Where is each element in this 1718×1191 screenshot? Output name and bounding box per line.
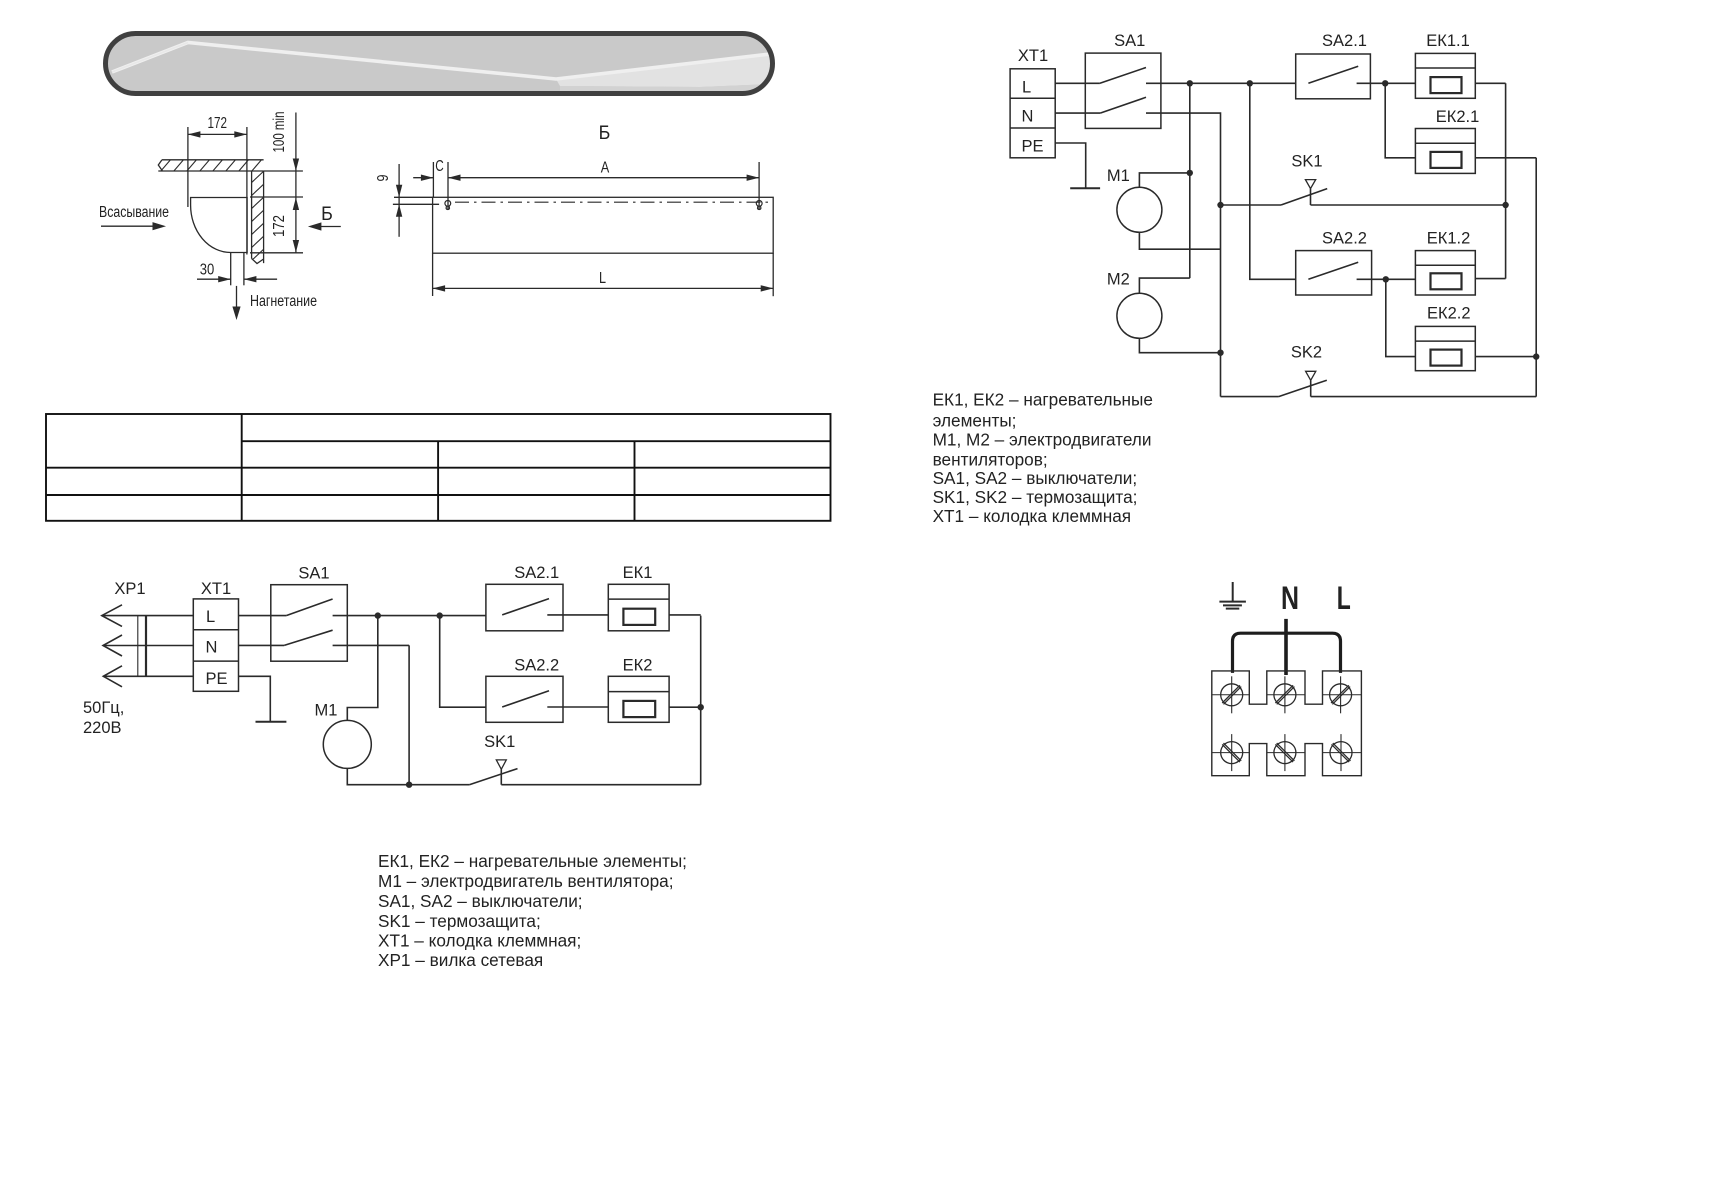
discharge slot xyxy=(230,253,232,286)
node bus1-SK1 junction xyxy=(1502,202,1508,208)
legend (top-right diagram) xyxy=(933,390,1153,527)
wire SK1 output to bus1 xyxy=(1311,204,1506,206)
hole offset line xyxy=(393,203,439,205)
svg-text:вентиляторов;: вентиляторов; xyxy=(933,449,1048,469)
svg-text:L: L xyxy=(206,608,215,626)
wire M1 top xyxy=(1139,173,1189,188)
node L-M1 branch junction xyxy=(1187,80,1193,86)
svg-text:N: N xyxy=(1022,108,1034,126)
svg-text:ХТ1 – колодка клеммная;: ХТ1 – колодка клеммная; xyxy=(378,931,581,951)
svg-text:М1, М2 – электродвигатели: М1, М2 – электродвигатели xyxy=(933,430,1152,450)
housing highlight streak xyxy=(112,43,770,80)
extension line ceiling bottom xyxy=(264,170,303,172)
node M1 top junction xyxy=(1187,170,1193,176)
switch SA1 pole 1 blade xyxy=(1100,68,1146,84)
thermal contact SK1 stub xyxy=(500,769,502,784)
node L-SA2.2 branch junction xyxy=(1247,80,1253,86)
wire M1 bottom to N bus xyxy=(1139,232,1220,249)
svg-text:ХТ1: ХТ1 xyxy=(1018,47,1048,65)
row line 1 (header split) xyxy=(242,440,831,442)
wire M2 top xyxy=(1139,278,1189,293)
row line 2 xyxy=(46,467,831,469)
wire N to SK1 xyxy=(1221,204,1282,206)
wire N XT1 to SA1 xyxy=(1055,112,1100,114)
svg-text:100 min: 100 min xyxy=(271,112,288,153)
svg-text:ХТ1: ХТ1 xyxy=(201,580,231,598)
svg-text:Нагнетание: Нагнетание xyxy=(250,293,317,310)
heater EK2.1 box xyxy=(1415,129,1475,174)
wire branch to SA2.2 xyxy=(1250,83,1296,279)
view B drawing (side elevation) xyxy=(393,162,773,296)
svg-text:C: C xyxy=(435,158,444,175)
switch SA2.1 blade xyxy=(1308,66,1358,83)
dim 172 top: dimension line xyxy=(188,133,247,135)
wire N bus to SK2 xyxy=(1221,396,1279,398)
screw terminal bottom 3 xyxy=(1323,752,1362,754)
dim A right extension xyxy=(758,162,760,210)
thermal contact SK1 stub xyxy=(1310,189,1312,205)
extension line unit bottom xyxy=(250,252,303,254)
svg-text:SK1 – термозащита;: SK1 – термозащита; xyxy=(378,911,541,931)
thermal contact SK2 stub xyxy=(1310,380,1312,396)
svg-text:L: L xyxy=(599,270,606,287)
heater EK1 inner element xyxy=(623,609,655,625)
dim 100 min: dimension line xyxy=(295,113,297,197)
svg-text:ЕК2.2: ЕК2.2 xyxy=(1427,305,1471,323)
svg-text:220В: 220В xyxy=(83,719,122,737)
wire EK1.2 output to bus1 xyxy=(1475,278,1505,280)
wire N SA1 output xyxy=(1146,113,1221,397)
terminal block XT1 (top right diagram) xyxy=(1010,69,1055,158)
svg-text:ЕК2: ЕК2 xyxy=(623,657,653,675)
motor M1 circle xyxy=(1117,187,1162,232)
extension line unit top xyxy=(250,196,303,198)
wire right bus vertical xyxy=(700,616,702,785)
node M2-N junction xyxy=(1217,350,1223,356)
screw terminal top 2 (N) xyxy=(1267,694,1305,696)
svg-text:SA2.1: SA2.1 xyxy=(1322,32,1367,50)
svg-text:Всасывание: Всасывание xyxy=(99,204,169,221)
node bus2-EK2.2 junction xyxy=(1533,353,1539,359)
svg-text:9: 9 xyxy=(375,175,392,182)
wire SA2.2 to EK2 xyxy=(547,706,608,708)
heater EK2.2 box xyxy=(1415,326,1475,370)
svg-text:ЕК1, ЕК2 – нагревательные элем: ЕК1, ЕК2 – нагревательные элементы; xyxy=(378,851,687,871)
node N-SK1 junction xyxy=(1217,202,1223,208)
wire PE to ground xyxy=(1055,143,1086,188)
dim L extension lines xyxy=(432,253,434,296)
plug body bar thick xyxy=(145,616,147,677)
svg-text:элементы;: элементы; xyxy=(933,411,1017,431)
air curtain housing (top pictorial view) xyxy=(106,34,773,94)
wire bus2 vertical xyxy=(1535,158,1537,397)
centerline (dash-dot) xyxy=(455,201,770,203)
plug XP1 contact PE xyxy=(103,666,122,687)
dim C extension lines xyxy=(432,162,434,197)
two-fan wiring diagram (top-right) xyxy=(1010,53,1539,397)
switch SA2.2 blade xyxy=(502,691,549,707)
node EK branch 1 junction xyxy=(1382,80,1388,86)
plug XP1 contact L xyxy=(102,605,122,627)
heater EK1 box xyxy=(608,584,669,631)
dim 30: dimension line xyxy=(197,278,231,280)
ground symbol (label) xyxy=(1219,582,1246,609)
wire N SA1 output xyxy=(333,644,410,646)
dim C dimension line and arrows xyxy=(413,177,433,179)
wire L branch vertical (M1/M2 feed) xyxy=(1189,83,1191,278)
svg-text:PE: PE xyxy=(1022,137,1044,155)
wire M1 bottom to N node xyxy=(347,768,409,784)
node L-M1 junction xyxy=(375,612,381,618)
wire SK2 output to bus2 xyxy=(1311,396,1537,398)
housing highlight band right xyxy=(556,54,772,87)
svg-text:SA1, SA2 – выключатели;: SA1, SA2 – выключатели; xyxy=(378,891,583,911)
heater EK1.1 box xyxy=(1415,53,1475,98)
heater EK2 box xyxy=(608,676,669,722)
wire M1 feed (down-left from L) xyxy=(347,616,378,721)
wire bus1 vertical xyxy=(1505,83,1507,278)
suction flow arrow xyxy=(101,225,154,227)
wire L XP1 to XT1 xyxy=(102,615,194,617)
svg-text:ХР1: ХР1 xyxy=(114,580,145,598)
svg-text:50Гц,: 50Гц, xyxy=(83,699,124,717)
svg-text:Б: Б xyxy=(599,122,611,144)
wire branch to SA2.2 xyxy=(440,616,486,708)
thermal contact SK1 triangle xyxy=(496,760,506,769)
wire EK2.2 output to bus2 xyxy=(1475,356,1536,358)
motor M2 circle xyxy=(1117,293,1162,338)
switch SA1 pole 2 blade xyxy=(1100,97,1146,113)
wire N XT1 to SA1 xyxy=(239,644,285,646)
svg-text:172: 172 xyxy=(208,115,228,132)
thermal contact SK2 blade xyxy=(1279,380,1327,396)
wire PE to ground xyxy=(239,676,271,722)
svg-text:ЕК1: ЕК1 xyxy=(623,564,653,582)
heater EK1.2 inner element xyxy=(1431,273,1462,289)
svg-text:172: 172 xyxy=(271,215,288,237)
node N-SK1 junction xyxy=(406,782,412,788)
screw terminal bottom 2 xyxy=(1267,752,1305,754)
node L-SA2.2 junction xyxy=(437,612,443,618)
row line 3 xyxy=(46,494,831,496)
svg-text:SK1: SK1 xyxy=(1291,153,1322,171)
screw terminal top 1 (PE) xyxy=(1212,694,1250,696)
svg-text:ХР1 – вилка сетевая: ХР1 – вилка сетевая xyxy=(378,950,543,970)
wire EK2.2 feed xyxy=(1386,279,1416,356)
wire L SA1 output xyxy=(1146,82,1296,84)
wire ground-to-L jumper loop xyxy=(1233,633,1341,673)
heater EK2 inner element xyxy=(623,701,655,717)
heater EK1.2 box xyxy=(1415,251,1475,295)
wire EK1 output xyxy=(669,614,701,616)
svg-text:N: N xyxy=(206,639,218,657)
svg-text:ХТ1 – колодка клеммная: ХТ1 – колодка клеммная xyxy=(933,506,1131,526)
switch SA1 box xyxy=(271,585,348,662)
wire M2 bottom to N bus xyxy=(1139,338,1220,352)
housing lower strip right xyxy=(560,84,772,93)
wire N XP1 to XT1 xyxy=(103,645,193,647)
svg-text:ЕК1.1: ЕК1.1 xyxy=(1426,32,1470,50)
heater EK1.1 inner element xyxy=(1431,77,1462,93)
keyhole left xyxy=(445,201,451,210)
wire EK1.1 output to bus1 xyxy=(1475,82,1505,84)
svg-text:ЕК1, ЕК2 – нагревательные: ЕК1, ЕК2 – нагревательные xyxy=(933,390,1153,410)
wire L XT1 to SA1 xyxy=(239,615,287,617)
dim 172 right: dimension line xyxy=(295,198,297,253)
thermal contact SK2 triangle xyxy=(1306,371,1316,380)
wire N (thick) xyxy=(1284,619,1288,675)
svg-text:ЕК2.1: ЕК2.1 xyxy=(1436,108,1480,126)
wire EK2.1 feed xyxy=(1385,83,1415,158)
screw terminal bottom 1 xyxy=(1212,752,1250,754)
switch SA2.2 blade xyxy=(1308,262,1358,279)
wire SA2.1 output xyxy=(1357,82,1416,84)
switch SA1 pole 2 blade xyxy=(284,630,332,645)
wire N node to SK1 xyxy=(409,784,469,786)
thermal contact SK1 blade xyxy=(1281,189,1327,205)
mounting cross-section drawing xyxy=(101,113,341,321)
node EK2 output junction xyxy=(698,704,704,710)
ceiling (hatched) xyxy=(158,158,263,172)
screw terminal top 3 (L) xyxy=(1323,694,1362,696)
switch SA2.1 box xyxy=(1296,54,1371,99)
svg-text:SK1, SK2 – термозащита;: SK1, SK2 – термозащита; xyxy=(933,487,1138,507)
svg-text:SA1: SA1 xyxy=(1114,32,1145,50)
svg-text:М2: М2 xyxy=(1107,271,1130,289)
specification table (empty) xyxy=(46,414,831,521)
column line 3 xyxy=(634,441,636,521)
svg-text:L: L xyxy=(1022,79,1031,97)
switch SA1 pole 1 blade xyxy=(286,599,332,616)
wire EK2 output xyxy=(669,706,701,708)
column line 2 xyxy=(437,441,439,521)
top edge extension (left) xyxy=(394,196,433,198)
switch SA2.1 blade xyxy=(502,599,549,615)
wire EK2.1 output to bus2 xyxy=(1475,157,1536,159)
unit body outline xyxy=(433,197,774,253)
dim 172 top: extension lines xyxy=(187,127,189,207)
heater EK2.2 inner element xyxy=(1431,350,1462,366)
svg-text:М1 – электродвигатель вентилят: М1 – электродвигатель вентилятора; xyxy=(378,871,673,891)
dim 9: dimension line and arrows xyxy=(398,164,400,237)
svg-text:Б: Б xyxy=(321,203,333,225)
switch SA2.2 box xyxy=(1296,251,1372,295)
svg-text:SA2.1: SA2.1 xyxy=(514,564,559,582)
svg-text:SA2.2: SA2.2 xyxy=(1322,230,1367,248)
svg-text:SA1, SA2 – выключатели;: SA1, SA2 – выключатели; xyxy=(933,468,1138,488)
motor M1 circle xyxy=(323,720,371,768)
thermal contact SK1 blade xyxy=(469,769,517,785)
svg-text:A: A xyxy=(601,160,610,177)
wire L XT1 to SA1 xyxy=(1055,82,1100,84)
switch SA1 box xyxy=(1085,53,1161,128)
ground symbol xyxy=(1070,187,1100,189)
svg-text:SK2: SK2 xyxy=(1291,344,1322,362)
svg-text:PE: PE xyxy=(206,670,228,688)
svg-text:ЕК1.2: ЕК1.2 xyxy=(1427,230,1471,248)
node EK branch 2 junction xyxy=(1383,276,1389,282)
terminal connection drawing (bottom-right) xyxy=(1212,582,1362,776)
wall (hatched) xyxy=(250,170,265,264)
wire L SA1 output xyxy=(333,615,486,617)
svg-text:N: N xyxy=(1281,580,1299,616)
switch SA2.1 box xyxy=(486,584,563,631)
svg-text:SK1: SK1 xyxy=(484,733,515,751)
svg-text:SA2.2: SA2.2 xyxy=(514,657,559,675)
svg-text:L: L xyxy=(1337,580,1351,616)
single-phase wiring diagram (bottom-left) xyxy=(102,584,704,788)
column line 1 xyxy=(241,414,243,521)
unit body section xyxy=(191,198,248,253)
plug XP1 contact N xyxy=(103,635,122,656)
svg-text:30: 30 xyxy=(200,262,215,279)
dim A dimension line xyxy=(448,177,759,179)
heater EK2.1 inner element xyxy=(1431,152,1462,168)
thermal contact SK1 triangle xyxy=(1305,180,1315,189)
wire SA2.2 output xyxy=(1357,278,1416,280)
wire SK1 output to right bus xyxy=(501,784,700,786)
plug body bar thin xyxy=(137,616,139,677)
svg-text:М1: М1 xyxy=(1107,167,1130,185)
switch SA2.2 box xyxy=(486,676,563,722)
terminal block body outline xyxy=(1212,671,1362,776)
legend (bottom-left diagram) xyxy=(378,851,687,970)
dim L dimension line xyxy=(433,287,774,289)
discharge flow arrow xyxy=(236,286,238,308)
section B view arrow xyxy=(320,226,341,228)
wire N vertical drop xyxy=(408,645,410,784)
ground symbol xyxy=(256,721,287,723)
keyhole right xyxy=(756,201,762,210)
terminal block XT1 xyxy=(193,599,238,691)
svg-text:SA1: SA1 xyxy=(298,565,329,583)
wire PE XP1 to XT1 xyxy=(103,675,193,677)
svg-text:М1: М1 xyxy=(315,702,338,720)
wire SA2.1 to EK1 xyxy=(547,614,608,616)
